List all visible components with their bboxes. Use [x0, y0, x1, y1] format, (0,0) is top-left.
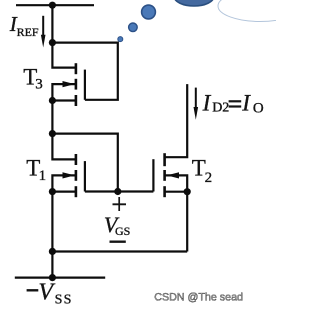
- wire T2 source lead: [165, 191, 187, 193]
- T1 body arrow: [63, 172, 75, 178]
- thought bubble trail dot 3: [142, 5, 156, 19]
- node T3 source / body junction: [49, 97, 56, 104]
- wire left rail bottom (T1 source to -VSS bus): [51, 192, 53, 278]
- svg-text:V: V: [38, 280, 55, 306]
- wire T3 gate feedback loop (gate to IREF node): [52, 43, 117, 100]
- thought bubble dark ellipse (clipped at top): [174, 0, 214, 6]
- wire T1 gate feed (node A to gate bus): [52, 134, 117, 192]
- svg-text:SS: SS: [55, 293, 73, 308]
- node bottom link junction: [49, 248, 56, 255]
- wire gate bus T1 to T2: [85, 190, 153, 192]
- transistor T2 (mirrored, gate on left): [153, 153, 164, 197]
- wire T2 source down to bottom link: [186, 192, 188, 252]
- label ID2 = IO: [202, 90, 264, 116]
- wire bottom link (T1 source rail to T2 source): [52, 250, 187, 252]
- ID2 current arrow: [194, 88, 199, 120]
- wire T2 drain lead to rail: [165, 84, 187, 157]
- svg-text:2: 2: [205, 170, 213, 186]
- label T3: [23, 65, 43, 93]
- label T2: [192, 156, 212, 187]
- label VGS with + and - polarity marks: [104, 197, 130, 242]
- node IREF / T3 drain-gate junction: [49, 39, 56, 46]
- wire T2 body lead elbow: [165, 175, 187, 191]
- svg-text:D2: D2: [212, 100, 229, 115]
- wire T1 source lead: [52, 191, 75, 193]
- transistor T3 (diode-connected, gate on right): [76, 63, 85, 106]
- thought bubble outlined ellipse (clipped at right/top): [218, 0, 302, 22]
- svg-text:1: 1: [39, 168, 47, 184]
- thought bubble trail dot 1: [118, 37, 123, 42]
- svg-text:3: 3: [35, 77, 43, 93]
- T2 body arrow: [167, 172, 179, 178]
- node gate bus junction: [114, 188, 121, 195]
- wire left rail middle (T3 source to T1 drain elbow): [52, 101, 75, 160]
- node -VSS bus junction: [49, 274, 56, 281]
- wire T3 source lead: [52, 99, 75, 101]
- svg-text:I: I: [241, 90, 251, 115]
- svg-text:O: O: [253, 100, 264, 116]
- wire T3 body lead elbow: [52, 84, 75, 100]
- node T2 source / body junction: [184, 188, 191, 195]
- wire T1 body lead elbow: [52, 175, 75, 191]
- label IREF: [9, 12, 39, 39]
- wire top supply bus: [16, 4, 94, 6]
- svg-text:GS: GS: [115, 224, 130, 238]
- svg-text:CSDN @The sead: CSDN @The sead: [154, 292, 243, 304]
- label T1: [26, 156, 46, 184]
- node T1 source / body junction: [49, 188, 56, 195]
- wire left rail top (bus to T3 drain elbow): [52, 5, 75, 67]
- svg-text:REF: REF: [17, 25, 39, 39]
- node IREF (junction dot on top bus): [49, 2, 56, 9]
- label -VSS: [27, 280, 73, 308]
- T3 body arrow: [63, 81, 75, 87]
- IREF current arrow: [41, 16, 46, 48]
- transistor T1 (gate on right): [76, 154, 85, 197]
- wire bottom -VSS bus: [15, 277, 105, 279]
- svg-text:I: I: [202, 90, 212, 115]
- node A (T3 source - T1 drain - gate feed): [49, 130, 56, 137]
- thought bubble trail dot 2: [129, 23, 138, 32]
